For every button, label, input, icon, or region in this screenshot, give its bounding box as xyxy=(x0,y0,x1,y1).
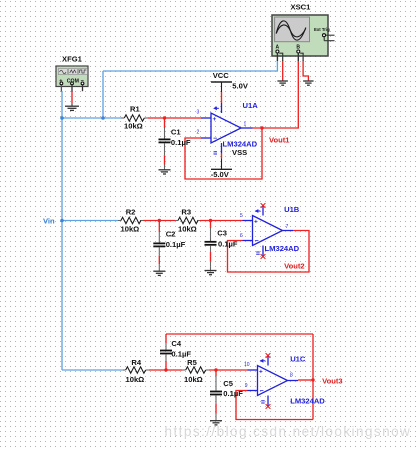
op-amp U1B xyxy=(240,205,300,257)
capacitor C1 xyxy=(159,118,191,170)
svg-text:10kΩ: 10kΩ xyxy=(121,224,140,233)
X mark U1C bottom xyxy=(266,404,271,409)
op-amp U1C xyxy=(244,354,325,406)
resistor R3 xyxy=(175,207,200,233)
node Vout1 xyxy=(269,136,290,145)
svg-text:10kΩ: 10kΩ xyxy=(124,122,143,131)
capacitor C4 xyxy=(160,334,191,370)
wire scope A- to ground xyxy=(282,61,284,81)
svg-text:C5: C5 xyxy=(223,379,233,388)
svg-text:+: + xyxy=(213,116,217,123)
wire Vin to R1 xyxy=(62,117,121,119)
function generator XFG1 xyxy=(56,55,88,92)
svg-text:2: 2 xyxy=(197,130,200,136)
wire XFG1 COM to ground xyxy=(71,92,73,104)
oscilloscope XSC1 xyxy=(272,3,335,62)
svg-text:10kΩ: 10kΩ xyxy=(184,375,203,384)
junction node Vout3 xyxy=(311,378,314,381)
svg-text:R3: R3 xyxy=(181,207,191,216)
wire U1A output to scope B xyxy=(253,61,299,129)
svg-text:8: 8 xyxy=(290,373,293,379)
power VSS xyxy=(211,148,248,179)
resistor R1 xyxy=(121,104,148,130)
power VCC xyxy=(211,71,249,103)
svg-text:R4: R4 xyxy=(131,358,141,367)
ground C2 xyxy=(153,271,165,275)
wire top to scope A xyxy=(103,61,277,72)
svg-text:Vout2: Vout2 xyxy=(284,261,305,270)
watermark xyxy=(165,424,412,439)
svg-text:C4: C4 xyxy=(171,339,181,348)
X mark U1B bottom xyxy=(261,254,266,259)
wire scope B- to ground xyxy=(303,61,308,81)
wire U1C output net xyxy=(298,334,313,420)
wire C4 top feedback xyxy=(166,333,313,335)
junction R2/C2 xyxy=(158,219,161,222)
svg-text:https://blog.csdn.net/lookings: https://blog.csdn.net/lookingsnow xyxy=(165,424,412,439)
junction R1/scope-A riser xyxy=(101,116,105,120)
svg-text:0.1µF: 0.1µF xyxy=(223,389,243,398)
svg-text:10: 10 xyxy=(244,362,250,368)
svg-text:5.0V: 5.0V xyxy=(232,82,249,91)
svg-text:7: 7 xyxy=(286,224,289,230)
wire Vin to R4 xyxy=(62,369,123,371)
junction R3/C3 xyxy=(209,219,212,222)
svg-text:-5.0V: -5.0V xyxy=(211,170,230,179)
svg-text:XSC1: XSC1 xyxy=(291,3,312,12)
svg-text:U1C: U1C xyxy=(290,354,306,363)
svg-text:9: 9 xyxy=(245,383,248,389)
svg-text:R2: R2 xyxy=(126,207,136,216)
svg-text:VCC: VCC xyxy=(213,71,230,80)
ground XFG1 COM xyxy=(65,104,79,111)
wire U1B feedback xyxy=(228,231,310,273)
node Vout3 xyxy=(322,377,343,386)
svg-text:0.1µF: 0.1µF xyxy=(218,239,238,248)
svg-text:Vin: Vin xyxy=(43,217,55,226)
svg-text:Vout1: Vout1 xyxy=(269,136,290,145)
junction Vin/R1 xyxy=(60,116,64,120)
ground scope A xyxy=(277,81,288,85)
resistor R5 xyxy=(183,358,209,384)
svg-text:C3: C3 xyxy=(217,229,227,238)
svg-text:C2: C2 xyxy=(166,229,176,238)
resistor R4 xyxy=(123,358,149,384)
svg-text:+: + xyxy=(254,218,258,225)
ground C1 xyxy=(159,170,171,174)
svg-text:+: + xyxy=(259,368,263,375)
svg-text:10kΩ: 10kΩ xyxy=(126,375,145,384)
junction node Vin xyxy=(60,219,64,223)
ground C3 xyxy=(205,271,217,275)
svg-text:1: 1 xyxy=(244,122,247,128)
X mark U1C top xyxy=(266,353,271,358)
svg-text:5: 5 xyxy=(240,213,243,219)
node Vout2 xyxy=(284,261,305,270)
capacitor C3 xyxy=(205,221,238,271)
ground scope B xyxy=(303,81,314,85)
X mark U1B top xyxy=(261,203,266,208)
resistor R2 xyxy=(118,207,143,233)
svg-text:10kΩ: 10kΩ xyxy=(178,224,197,233)
op-amp U1A xyxy=(197,101,259,154)
svg-text:−: − xyxy=(213,135,217,142)
svg-text:LM324AD: LM324AD xyxy=(290,396,325,405)
wire R3 to U1B + input xyxy=(200,220,243,222)
wire Vin to R2 xyxy=(62,220,118,222)
svg-text:R1: R1 xyxy=(130,104,140,113)
svg-text:−: − xyxy=(255,238,259,245)
wire Vin vertical from XFG1 xyxy=(61,91,63,370)
wire U1C bottom feedback xyxy=(236,391,313,420)
svg-text:6: 6 xyxy=(240,233,243,239)
svg-text:C1: C1 xyxy=(171,127,181,136)
node Vin label xyxy=(43,217,55,226)
svg-text:3: 3 xyxy=(197,110,200,116)
svg-text:−: − xyxy=(260,388,264,395)
capacitor C5 xyxy=(210,370,243,420)
svg-text:Ext Trig: Ext Trig xyxy=(314,27,330,32)
capacitor C2 xyxy=(153,221,185,272)
wire R1 to U1A + input xyxy=(148,117,201,119)
wire U1A feedback xyxy=(185,128,262,179)
svg-text:0.1µF: 0.1µF xyxy=(166,240,186,249)
svg-text:VSS: VSS xyxy=(232,148,247,157)
svg-text:XFG1: XFG1 xyxy=(62,55,83,64)
svg-text:U1B: U1B xyxy=(284,205,300,214)
svg-text:0.1µF: 0.1µF xyxy=(171,138,191,147)
wire R2 to R3 xyxy=(143,220,175,222)
wire R5 to U1C + input xyxy=(209,369,248,371)
svg-text:Vout3: Vout3 xyxy=(322,377,343,386)
ground C5 xyxy=(210,421,222,425)
svg-text:LM324AD: LM324AD xyxy=(265,244,300,253)
junction R4/C4 xyxy=(164,368,167,371)
junction node Vout1 xyxy=(260,126,263,129)
wire riser to scope A xyxy=(102,71,104,118)
svg-text:R5: R5 xyxy=(187,358,197,367)
wire R4 to R5 xyxy=(149,369,183,371)
svg-text:0.1µF: 0.1µF xyxy=(171,349,191,358)
svg-text:U1A: U1A xyxy=(243,101,259,110)
junction R5/C5 xyxy=(214,368,217,371)
junction R1/C1 xyxy=(163,116,166,119)
